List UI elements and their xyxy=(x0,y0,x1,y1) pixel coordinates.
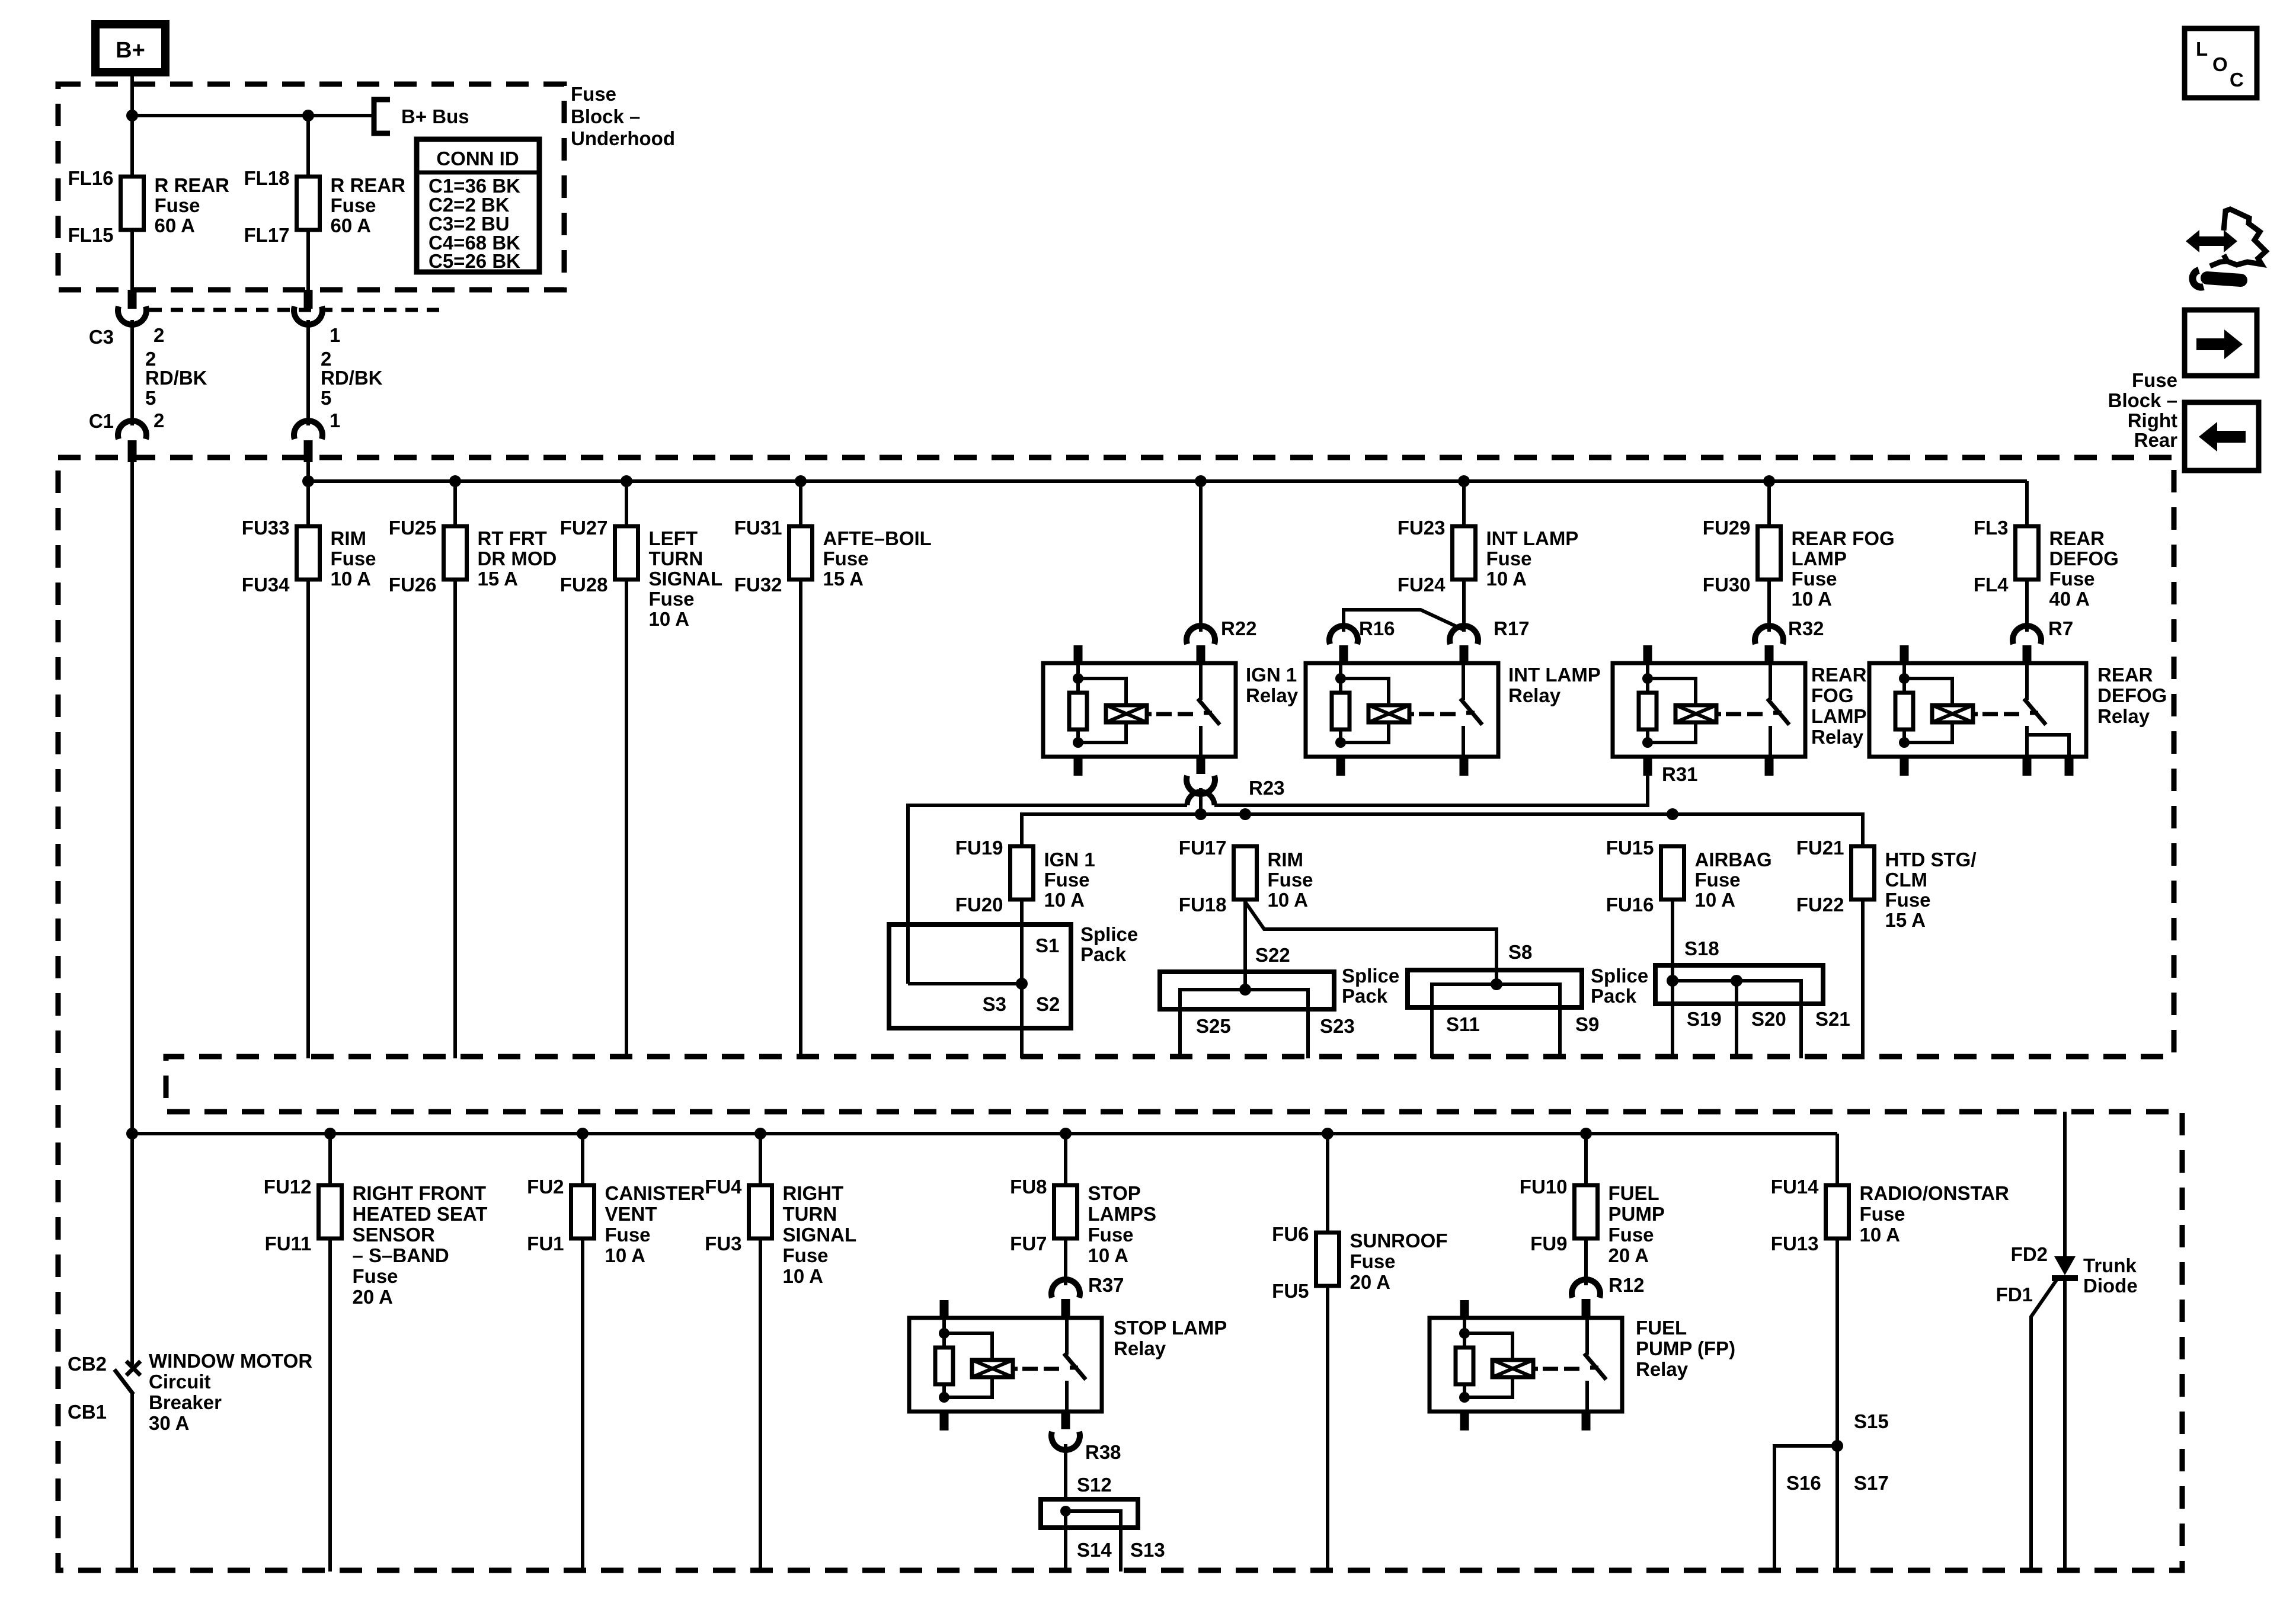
svg-text:Diode: Diode xyxy=(2083,1275,2138,1297)
svg-text:Relay: Relay xyxy=(2097,705,2150,727)
svg-text:Fuse: Fuse xyxy=(1860,1203,1905,1225)
svg-text:C1: C1 xyxy=(89,410,114,432)
svg-text:Fuse: Fuse xyxy=(649,588,695,610)
wire FD2 from border xyxy=(2063,1112,2067,1256)
wire bus to CB2 xyxy=(130,1134,134,1365)
svg-text:FU19: FU19 xyxy=(955,837,1003,859)
svg-text:Fuse: Fuse xyxy=(2049,568,2095,590)
svg-text:10 A: 10 A xyxy=(649,608,689,630)
wire FU30 to R32 xyxy=(1767,579,1771,632)
wire S19 down xyxy=(1671,981,1674,1058)
svg-text:20 A: 20 A xyxy=(1350,1271,1390,1293)
wire bus to R22 xyxy=(1199,481,1203,632)
wire FU24 to R17 xyxy=(1462,579,1466,632)
svg-text:Block –: Block – xyxy=(2108,389,2177,411)
svg-text:FU6: FU6 xyxy=(1272,1223,1309,1245)
svg-text:10 A: 10 A xyxy=(1044,889,1085,911)
fuse block right rear dashed border xyxy=(58,457,2182,1570)
wire FU20 to splice S1 xyxy=(1020,898,1024,984)
svg-text:15 A: 15 A xyxy=(1885,909,1926,931)
svg-text:Pack: Pack xyxy=(1591,985,1637,1007)
node lower bus x1798 xyxy=(1060,1128,1072,1140)
connector R22 xyxy=(1187,626,1215,644)
svg-text:Fuse: Fuse xyxy=(1792,568,1837,590)
circuit breaker blade xyxy=(114,1369,133,1394)
relay IGN1 coil bottom stub xyxy=(1074,757,1083,776)
svg-text:Fuse: Fuse xyxy=(155,194,200,216)
wire C1 pin1 to bus xyxy=(306,462,310,481)
svg-text:AFTE–BOIL: AFTE–BOIL xyxy=(823,527,932,549)
node R23 on bus2 xyxy=(1195,808,1207,820)
connector R38 xyxy=(1061,1412,1070,1429)
svg-text:LAMP: LAMP xyxy=(1792,548,1847,569)
connector C3 dashed link line xyxy=(149,308,440,312)
svg-text:FL18: FL18 xyxy=(244,167,289,189)
svg-text:10 A: 10 A xyxy=(783,1265,823,1287)
wire C1 pin2 down to lower bus xyxy=(130,462,134,1134)
svg-text:FUEL: FUEL xyxy=(1609,1182,1659,1204)
svg-text:R22: R22 xyxy=(1221,617,1257,639)
service icon wrench xyxy=(2192,270,2204,287)
fusible link FL16 R REAR 60A xyxy=(121,177,144,230)
svg-text:REAR: REAR xyxy=(1811,664,1867,686)
svg-text:S17: S17 xyxy=(1854,1472,1889,1494)
wire bus to FL18 xyxy=(306,116,310,177)
svg-text:10 A: 10 A xyxy=(331,568,371,590)
svg-text:FU24: FU24 xyxy=(1398,574,1446,596)
svg-text:Fuse: Fuse xyxy=(1044,869,1090,891)
svg-text:Fuse: Fuse xyxy=(1609,1224,1654,1246)
svg-text:Fuse: Fuse xyxy=(2132,369,2177,391)
arrow box right xyxy=(2185,310,2257,376)
svg-text:S2: S2 xyxy=(1036,993,1060,1015)
fuse FU19 IGN 1 10A xyxy=(1011,846,1034,900)
fuse FU21 HTD STG CLM 15A xyxy=(1851,846,1875,900)
splice S12 internal bar xyxy=(1066,1511,1121,1572)
svg-text:RD/BK: RD/BK xyxy=(145,367,207,389)
svg-text:DR MOD: DR MOD xyxy=(478,548,557,569)
wire FU28 down xyxy=(625,579,628,1058)
svg-text:O: O xyxy=(2212,53,2228,75)
wire FU7 to R37 xyxy=(1064,1238,1067,1285)
svg-text:R16: R16 xyxy=(1359,617,1395,639)
svg-text:Fuse: Fuse xyxy=(605,1224,651,1246)
svg-text:CB1: CB1 xyxy=(68,1401,107,1423)
fuse FU8 STOP LAMPS 10A xyxy=(1054,1185,1077,1238)
node S18 junction a xyxy=(1667,975,1678,987)
relay REAR DEFOG switch bottom stub xyxy=(2023,757,2032,776)
svg-text:Underhood: Underhood xyxy=(571,127,675,149)
fuse FU31 AFTE-BOIL 15A xyxy=(789,526,813,580)
wire S17 down xyxy=(1835,1446,1839,1572)
svg-text:10 A: 10 A xyxy=(1268,889,1308,911)
wire S20 down xyxy=(1735,981,1738,1058)
relay IGN 1 xyxy=(1043,663,1236,757)
wire FU13 to S15 xyxy=(1835,1238,1839,1446)
connector C1 pin 2 xyxy=(118,421,146,439)
svg-text:Fuse: Fuse xyxy=(331,194,376,216)
svg-text:Pack: Pack xyxy=(1080,943,1127,965)
svg-text:15 A: 15 A xyxy=(823,568,864,590)
svg-text:Breaker: Breaker xyxy=(149,1391,222,1413)
svg-text:5: 5 xyxy=(145,387,156,409)
svg-text:INT LAMP: INT LAMP xyxy=(1508,664,1601,686)
node lower bus x223 xyxy=(126,1128,138,1140)
B+ bus line xyxy=(132,114,372,117)
wire FU3 down xyxy=(759,1238,762,1572)
svg-text:C: C xyxy=(2230,69,2244,91)
svg-text:Relay: Relay xyxy=(1508,684,1561,706)
fuse FU12 RIGHT FRONT HEATED SEAT 20A xyxy=(319,1185,342,1238)
trunk diode FD xyxy=(2054,1256,2076,1275)
fusible link FL18 R REAR 60A xyxy=(297,177,320,230)
svg-text:Fuse: Fuse xyxy=(571,83,616,105)
svg-text:VENT: VENT xyxy=(605,1203,657,1225)
svg-text:Fuse: Fuse xyxy=(1088,1224,1134,1246)
svg-text:FU10: FU10 xyxy=(1520,1176,1568,1198)
svg-text:B+ Bus: B+ Bus xyxy=(401,105,469,127)
svg-text:R32: R32 xyxy=(1788,617,1824,639)
svg-text:FU29: FU29 xyxy=(1703,517,1751,539)
svg-text:S18: S18 xyxy=(1684,937,1719,959)
wire FU1 down xyxy=(581,1238,584,1572)
splice pack S8 box xyxy=(1408,970,1582,1007)
wire bus to FU2 xyxy=(581,1134,584,1185)
svg-text:FU23: FU23 xyxy=(1398,517,1446,539)
node B+ bus tap 1 xyxy=(126,110,138,121)
svg-text:FU31: FU31 xyxy=(734,517,782,539)
svg-text:FL4: FL4 xyxy=(1974,574,2009,596)
svg-text:FL15: FL15 xyxy=(68,224,113,246)
fuse FU29 REAR FOG LAMP 10A xyxy=(1758,526,1781,580)
wire bus corner to FU14 xyxy=(1835,1134,1839,1185)
fuse block underhood dashed border xyxy=(58,84,564,290)
svg-text:S23: S23 xyxy=(1320,1015,1355,1037)
svg-text:S22: S22 xyxy=(1255,944,1290,966)
svg-text:Circuit: Circuit xyxy=(149,1371,211,1393)
svg-text:S8: S8 xyxy=(1508,941,1532,963)
svg-text:S20: S20 xyxy=(1751,1008,1786,1030)
svg-text:FU32: FU32 xyxy=(734,574,782,596)
node upper bus x2985 xyxy=(1763,475,1775,487)
relay coil stub FUEL PUMP xyxy=(1460,1300,1469,1318)
svg-text:LAMP: LAMP xyxy=(1811,705,1867,727)
wire bus to FL16 xyxy=(130,116,134,177)
svg-text:FU33: FU33 xyxy=(242,517,290,539)
svg-text:S25: S25 xyxy=(1196,1015,1231,1037)
node B+ bus tap 2 xyxy=(302,110,314,121)
splice S8 internal bar xyxy=(1432,984,1560,1058)
svg-text:Relay: Relay xyxy=(1811,726,1864,748)
connector R37 xyxy=(1051,1279,1080,1298)
circuit breaker CB contact X xyxy=(126,1361,140,1375)
svg-text:FU8: FU8 xyxy=(1010,1176,1047,1198)
node upper bus x1351 xyxy=(795,475,807,487)
svg-text:FU11: FU11 xyxy=(265,1233,312,1254)
svg-text:S14: S14 xyxy=(1077,1539,1112,1561)
svg-text:Block –: Block – xyxy=(571,105,640,127)
svg-text:Fuse: Fuse xyxy=(1885,889,1931,911)
svg-text:FU12: FU12 xyxy=(264,1176,312,1198)
svg-text:60 A: 60 A xyxy=(155,215,195,236)
splice pack S22 box xyxy=(1160,972,1334,1009)
svg-text:Fuse: Fuse xyxy=(353,1265,398,1287)
fuse FU2 CANISTER VENT 10A xyxy=(571,1185,594,1238)
svg-text:S9: S9 xyxy=(1575,1013,1599,1035)
svg-text:R REAR: R REAR xyxy=(331,174,406,196)
svg-text:S16: S16 xyxy=(1786,1472,1821,1494)
svg-text:FU18: FU18 xyxy=(1179,894,1227,916)
wire B+ to bus xyxy=(130,72,134,116)
relay coil stub REAR DEFOG xyxy=(1900,645,1909,663)
node lower bus x2240 xyxy=(1322,1128,1334,1140)
wire C3 to C1 circuit 2 RD/BK xyxy=(130,320,134,425)
svg-text:Right: Right xyxy=(2128,409,2177,431)
relay REAR DEFOG coil bottom stub xyxy=(1900,757,1909,776)
svg-text:HEATED SEAT: HEATED SEAT xyxy=(353,1203,488,1225)
svg-text:Fuse: Fuse xyxy=(1486,548,1532,569)
svg-text:FU17: FU17 xyxy=(1179,837,1227,859)
svg-text:S11: S11 xyxy=(1446,1013,1480,1035)
svg-text:Splice: Splice xyxy=(1080,923,1138,945)
splice pack S1 box xyxy=(889,924,1071,1028)
connector C1 pin 1 xyxy=(294,421,322,439)
svg-text:AIRBAG: AIRBAG xyxy=(1695,849,1772,870)
svg-text:Relay: Relay xyxy=(1246,684,1299,706)
svg-text:FU5: FU5 xyxy=(1272,1280,1309,1302)
B+ Bus tap bracket xyxy=(374,100,390,133)
wire FU5 down xyxy=(1326,1286,1329,1572)
svg-text:REAR: REAR xyxy=(2097,664,2153,686)
wire S16 branch xyxy=(1774,1446,1837,1572)
svg-text:FOG: FOG xyxy=(1811,684,1854,706)
wire bus to FU10 xyxy=(1584,1134,1588,1185)
svg-text:B+: B+ xyxy=(116,38,145,63)
wire FU9 to R12 xyxy=(1584,1238,1588,1285)
relay FP switch bottom stub xyxy=(1582,1412,1591,1430)
svg-text:FU7: FU7 xyxy=(1010,1233,1047,1254)
splice pack S18 box xyxy=(1655,965,1823,1004)
svg-text:FU9: FU9 xyxy=(1530,1233,1567,1254)
wire FU22 down xyxy=(1861,898,1865,1058)
svg-text:2: 2 xyxy=(154,409,164,431)
svg-text:FU34: FU34 xyxy=(242,574,290,596)
svg-text:Fuse: Fuse xyxy=(823,548,869,569)
svg-text:FU26: FU26 xyxy=(389,574,437,596)
svg-text:Fuse: Fuse xyxy=(1695,869,1741,891)
svg-text:R31: R31 xyxy=(1662,763,1698,785)
relay REAR FOG switch bottom stub xyxy=(1765,757,1774,776)
connector R17 xyxy=(1450,626,1478,644)
svg-text:RIM: RIM xyxy=(1268,849,1304,870)
svg-text:FU3: FU3 xyxy=(705,1233,741,1254)
svg-text:Fuse: Fuse xyxy=(1268,869,1313,891)
wire bus to FU12 xyxy=(328,1134,332,1185)
svg-text:REAR: REAR xyxy=(2049,527,2105,549)
svg-text:FU14: FU14 xyxy=(1771,1176,1819,1198)
wire bus to FU31 xyxy=(799,481,802,526)
relay coil stub STOP LAMP xyxy=(940,1300,949,1318)
svg-text:FU28: FU28 xyxy=(560,574,608,596)
node S12 junction xyxy=(1060,1506,1071,1516)
relay INT LAMP switch bottom stub xyxy=(1460,757,1469,776)
wire FU34 down xyxy=(306,579,310,1058)
splice pack S12 box xyxy=(1041,1499,1138,1528)
svg-text:IGN 1: IGN 1 xyxy=(1246,664,1297,686)
wire C3 to C1 circuit 2 RD/BK (right) xyxy=(306,320,310,425)
svg-text:R17: R17 xyxy=(1494,617,1530,639)
node lower bus x1283 xyxy=(754,1128,766,1140)
relay coil stub IGN1 xyxy=(1074,645,1083,663)
node upper bus x768 xyxy=(449,475,461,487)
svg-text:IGN 1: IGN 1 xyxy=(1044,849,1095,870)
connector R7 xyxy=(2013,626,2041,644)
svg-text:Splice: Splice xyxy=(1591,965,1648,987)
svg-text:CANISTER: CANISTER xyxy=(605,1182,705,1204)
connector R23 xyxy=(1187,776,1215,794)
bus1 left segment to splice S1 xyxy=(908,805,1187,984)
svg-text:RD/BK: RD/BK xyxy=(321,367,383,389)
svg-text:CB2: CB2 xyxy=(68,1353,107,1375)
svg-text:CLM: CLM xyxy=(1885,869,1927,891)
svg-text:DEFOG: DEFOG xyxy=(2049,548,2119,569)
fuse FU14 RADIO ONSTAR 10A xyxy=(1826,1185,1849,1238)
svg-text:SIGNAL: SIGNAL xyxy=(649,568,723,590)
svg-text:10 A: 10 A xyxy=(1088,1244,1128,1266)
svg-text:STOP: STOP xyxy=(1088,1182,1141,1204)
wire bus to FU8 xyxy=(1064,1134,1067,1185)
svg-text:S3: S3 xyxy=(983,993,1006,1015)
relay coil stub REAR FOG xyxy=(1643,645,1652,663)
node S18 junction b xyxy=(1731,975,1742,987)
node lower bus x557 xyxy=(324,1128,336,1140)
node upper bus x1057 xyxy=(621,475,632,487)
wire bus to FU4 xyxy=(759,1134,762,1185)
svg-text:2: 2 xyxy=(154,324,164,346)
svg-text:FU30: FU30 xyxy=(1703,574,1751,596)
svg-text:1: 1 xyxy=(330,324,340,346)
svg-text:SENSOR: SENSOR xyxy=(353,1224,436,1246)
svg-text:S1: S1 xyxy=(1035,934,1059,956)
connector R32 xyxy=(1755,626,1783,644)
wire FU18 to splice S22 xyxy=(1243,898,1247,990)
svg-text:STOP LAMP: STOP LAMP xyxy=(1114,1317,1227,1339)
relay INT LAMP xyxy=(1306,663,1498,757)
connector R16 xyxy=(1329,626,1358,644)
svg-text:HTD STG/: HTD STG/ xyxy=(1885,849,1977,870)
wire FU26 down xyxy=(453,579,457,1058)
svg-text:FU20: FU20 xyxy=(955,894,1003,916)
svg-text:PUMP: PUMP xyxy=(1609,1203,1665,1225)
wire bus to FU27 xyxy=(625,481,628,526)
svg-text:1: 1 xyxy=(330,409,340,431)
relay REAR FOG coil bottom stub xyxy=(1643,757,1652,776)
svg-text:FU25: FU25 xyxy=(389,517,437,539)
node lower bus x2676 xyxy=(1580,1128,1592,1140)
svg-text:60 A: 60 A xyxy=(331,215,371,236)
fuse FU33 RIM 10A xyxy=(297,526,320,580)
node upper bus x520 xyxy=(302,475,314,487)
svg-text:10 A: 10 A xyxy=(605,1244,645,1266)
LOC reference box xyxy=(2185,28,2257,98)
svg-text:Pack: Pack xyxy=(1342,985,1388,1007)
wire FU32 down xyxy=(799,579,802,1058)
svg-text:WINDOW MOTOR: WINDOW MOTOR xyxy=(149,1350,312,1372)
svg-text:S19: S19 xyxy=(1687,1008,1722,1030)
svg-text:INT LAMP: INT LAMP xyxy=(1486,527,1579,549)
svg-text:FL3: FL3 xyxy=(1974,517,2009,539)
svg-text:20 A: 20 A xyxy=(1609,1244,1649,1266)
relay FUEL PUMP FP xyxy=(1430,1318,1622,1412)
relay INT LAMP coil bottom stub xyxy=(1336,757,1345,776)
svg-text:Trunk: Trunk xyxy=(2083,1254,2137,1276)
node FU15 tap xyxy=(1667,808,1678,820)
fuse FU15 AIRBAG 10A xyxy=(1661,846,1684,900)
wire FL17 to C3 pin1 xyxy=(306,230,310,292)
svg-text:R37: R37 xyxy=(1088,1274,1124,1296)
fusible link FL3 REAR DEFOG 40A xyxy=(2016,526,2039,580)
svg-text:20 A: 20 A xyxy=(353,1286,393,1308)
svg-text:FU27: FU27 xyxy=(560,517,608,539)
wire diode cathode down xyxy=(2063,1278,2067,1572)
svg-text:5: 5 xyxy=(321,387,331,409)
svg-text:FU16: FU16 xyxy=(1606,894,1654,916)
svg-text:FL17: FL17 xyxy=(244,224,289,246)
svg-text:S13: S13 xyxy=(1130,1539,1165,1561)
wire R31 from REAR FOG coil xyxy=(1214,776,1648,805)
wire bus to FU25 xyxy=(453,481,457,526)
fuse FU25 RT FRT DR MOD 15A xyxy=(444,526,467,580)
relay IGN1 switch bottom stub xyxy=(1197,757,1205,774)
bus2 ignition feed xyxy=(1022,814,1863,846)
svg-text:40 A: 40 A xyxy=(2049,588,2090,610)
svg-text:10 A: 10 A xyxy=(1792,588,1832,610)
svg-text:SIGNAL: SIGNAL xyxy=(783,1224,857,1246)
svg-text:L: L xyxy=(2196,38,2208,60)
svg-text:DEFOG: DEFOG xyxy=(2097,684,2167,706)
fuse FU17 RIM 10A xyxy=(1234,846,1257,900)
svg-text:PUMP (FP): PUMP (FP) xyxy=(1636,1337,1735,1359)
svg-text:S15: S15 xyxy=(1854,1410,1889,1432)
upper fuse block bus xyxy=(308,479,2027,483)
svg-text:FD1: FD1 xyxy=(1996,1284,2033,1305)
svg-text:FU21: FU21 xyxy=(1796,837,1844,859)
svg-text:10 A: 10 A xyxy=(1486,568,1527,590)
connector C3 pin 2 xyxy=(128,290,137,309)
svg-text:FU2: FU2 xyxy=(527,1176,564,1198)
svg-text:R REAR: R REAR xyxy=(155,174,230,196)
svg-text:– S–BAND: – S–BAND xyxy=(353,1244,449,1266)
svg-text:RADIO/ONSTAR: RADIO/ONSTAR xyxy=(1860,1182,2010,1204)
svg-text:Relay: Relay xyxy=(1636,1358,1689,1380)
connector C3 pin 1 xyxy=(304,290,313,309)
svg-text:Fuse: Fuse xyxy=(783,1244,829,1266)
svg-text:FL16: FL16 xyxy=(68,167,113,189)
wire FU18 jog to S8 xyxy=(1245,902,1496,984)
svg-text:CONN ID: CONN ID xyxy=(436,148,519,169)
wire FD1 branch xyxy=(2031,1280,2057,1572)
fuse FU27 LEFT TURN SIGNAL 10A xyxy=(615,526,638,580)
svg-text:TURN: TURN xyxy=(783,1203,837,1225)
wire FL4 to R7 xyxy=(2025,579,2029,632)
svg-text:S21: S21 xyxy=(1815,1008,1850,1030)
svg-text:LEFT: LEFT xyxy=(649,527,698,549)
node FU17 tap xyxy=(1239,808,1251,820)
node upper bus x2470 xyxy=(1458,475,1470,487)
svg-text:FD2: FD2 xyxy=(2011,1243,2048,1265)
wire bus corner to FL3 xyxy=(2025,481,2029,526)
svg-text:30 A: 30 A xyxy=(149,1412,189,1434)
